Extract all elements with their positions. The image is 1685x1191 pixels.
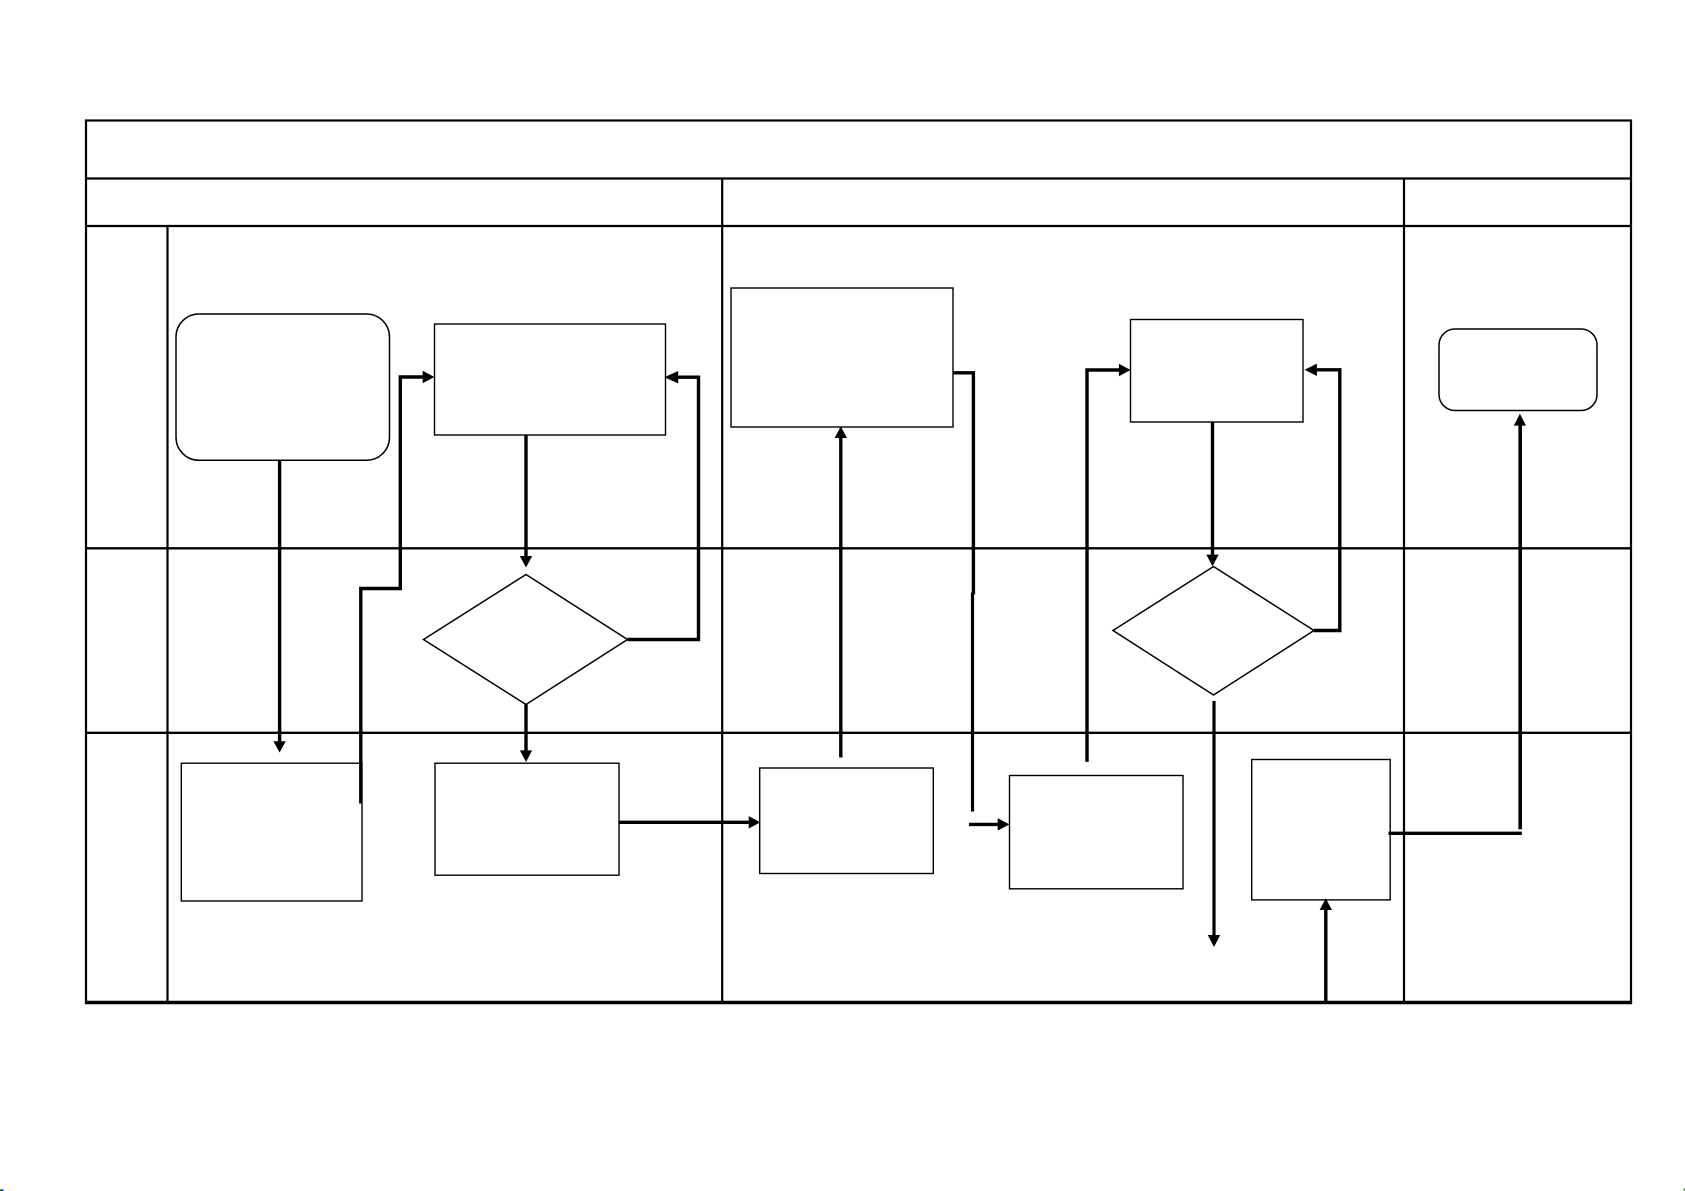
process box P12 bbox=[1252, 760, 1391, 900]
wire P11 to P4 (up then right) bbox=[1087, 370, 1119, 762]
swimlane table bottom border (thicker) bbox=[85, 1001, 1632, 1004]
arrowhead into P4 right bbox=[1305, 364, 1317, 376]
header row line 1 bbox=[86, 177, 1631, 179]
arrowhead into P4 left bbox=[1119, 364, 1131, 376]
arrowhead dangling bbox=[1208, 935, 1221, 947]
process box P10 bbox=[760, 768, 934, 874]
arrowhead into P2 right bbox=[664, 371, 678, 383]
section divider 1 bbox=[721, 179, 723, 1003]
wire T1 to P8 bbox=[278, 460, 281, 741]
wire P2 to D6 bbox=[524, 436, 527, 557]
wire D7 down (dangling) bbox=[1212, 701, 1215, 935]
wire P10 to P3 (up) bbox=[839, 438, 842, 758]
lane divider 2 bbox=[86, 732, 1631, 734]
arrowhead into D6 top bbox=[520, 556, 532, 568]
decision diamond D7 bbox=[1113, 567, 1314, 696]
wire vertical up to T5 bbox=[1518, 426, 1522, 830]
arrowhead into P12 bottom bbox=[1320, 898, 1332, 910]
terminator T1 (start, rounded) bbox=[176, 314, 390, 460]
arrowhead into P9 top bbox=[520, 750, 532, 762]
process box P2 bbox=[435, 324, 666, 435]
arrowhead into T5 bottom bbox=[1514, 414, 1526, 426]
wire D6 loop back to P2 right bbox=[628, 377, 699, 639]
terminator T5 (end, rounded) bbox=[1439, 329, 1597, 411]
wire stub into P11 bbox=[969, 823, 998, 826]
lane divider 1 bbox=[86, 547, 1631, 549]
wire P4 to D7 bbox=[1211, 422, 1214, 555]
scan artifact bottom-left bbox=[0, 1189, 1, 1191]
wire D6 to P9 bbox=[524, 705, 527, 751]
process box P4 bbox=[1131, 320, 1304, 423]
left narrow column divider bbox=[166, 226, 168, 1003]
process box P9 bbox=[435, 763, 619, 875]
arrowhead into P2 left bbox=[423, 371, 435, 383]
arrowhead into P11 left bbox=[998, 818, 1010, 830]
wire bottom border up into P12 bbox=[1324, 910, 1327, 1002]
wire P3 right down (with jog) bbox=[953, 373, 973, 595]
scan artifact green dot bbox=[1684, 1189, 1685, 1191]
process box P8 bbox=[181, 763, 362, 901]
wire P12 to T5 bbox=[1389, 832, 1522, 835]
wire P8 to P2 (up with jogs) bbox=[361, 377, 423, 804]
swimlane table outer border bbox=[86, 121, 1631, 1003]
wire P9 to P10 bbox=[619, 821, 749, 824]
decision diamond D6 bbox=[424, 575, 628, 705]
process box P11 bbox=[1010, 776, 1184, 889]
arrowhead into P3 bottom bbox=[835, 426, 847, 438]
section divider 2 bbox=[1403, 179, 1405, 1003]
process box P3 bbox=[731, 288, 953, 427]
wire segment continuing down bbox=[971, 593, 974, 812]
arrowhead into P10 left bbox=[749, 816, 761, 828]
header row line 2 bbox=[86, 225, 1631, 227]
wire D7 loop back to P4 right bbox=[1314, 370, 1340, 631]
arrowhead into P8 bbox=[273, 741, 285, 752]
arrowhead into D7 top bbox=[1206, 555, 1218, 567]
